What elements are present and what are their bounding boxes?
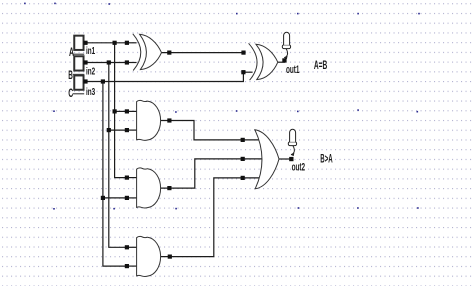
pin AND2 in1 bbox=[125, 176, 129, 180]
xor-gate U1 (XOR A,B) bbox=[133, 34, 162, 71]
wire OR3 input2 stub bbox=[243, 158, 263, 160]
wire net-A tap to AND1 input1 bbox=[115, 110, 128, 112]
major grid dark dots bbox=[24, 3, 420, 210]
wire XOR2 output to probe out1 bbox=[278, 61, 285, 63]
wire net-C tap to AND2 input2 bbox=[103, 197, 128, 199]
pin in3 output bbox=[83, 79, 87, 83]
or-gate U6 (3-input OR) bbox=[255, 130, 279, 189]
junction net-A at AND1 bbox=[113, 109, 117, 113]
pin in1 output bbox=[83, 41, 87, 45]
svg-text:A=B: A=B bbox=[314, 58, 328, 72]
pin XOR2 in2 bbox=[241, 70, 245, 74]
pin AND2 out bbox=[167, 186, 171, 190]
xor-gate U2 (XOR out to out1) bbox=[249, 43, 278, 80]
wire AND2 output to OR3 input2 bbox=[162, 159, 243, 188]
wire XOR1 output to XOR2 input1 bbox=[162, 52, 244, 54]
wire AND1 output to OR3 input1 bbox=[162, 121, 243, 140]
input port in1 (A) bbox=[73, 35, 85, 54]
junction net-C top bbox=[101, 79, 105, 83]
wire OR3 input1 stub bbox=[243, 139, 259, 141]
wire XOR2 input2 stub bbox=[243, 71, 252, 73]
and-gate U5 (AND3) bbox=[137, 237, 161, 277]
junction net-B at AND1 bbox=[107, 128, 111, 132]
wire AND input stubs bbox=[128, 110, 138, 112]
pin XOR2 in1 bbox=[241, 51, 245, 55]
junction net-C at AND2 bbox=[101, 196, 105, 200]
pin AND1 in1 bbox=[125, 109, 129, 113]
pin AND3 out bbox=[168, 255, 172, 259]
and-gate U4 (AND2) bbox=[137, 168, 161, 208]
wire OR3 output to probe out2 bbox=[279, 158, 291, 160]
pin OR3 in3 bbox=[241, 176, 245, 180]
wire net-B tap to AND1 input2 bbox=[109, 129, 128, 131]
probe out1 (LED indicator) bbox=[282, 32, 290, 62]
pin AND1 in2 bbox=[125, 128, 129, 132]
wire in2 to XOR1 input2 bbox=[86, 62, 129, 64]
wire in1 to XOR1 input1 bbox=[86, 42, 129, 44]
pin OR3 in2 bbox=[241, 157, 245, 161]
wire in3 to XOR2 input2 (long run, riser at x=243.4) bbox=[86, 72, 244, 81]
svg-text:out1: out1 bbox=[286, 64, 300, 76]
wire net-C vertical drop to AND3 input2 bbox=[103, 82, 128, 267]
pin AND3 in2 bbox=[125, 264, 129, 268]
junction net-B top bbox=[107, 60, 111, 64]
pin XOR1 in1 bbox=[125, 41, 129, 45]
svg-text:B: B bbox=[68, 68, 73, 82]
input port in3 (C) bbox=[73, 75, 85, 94]
probe out2 (LED indicator) bbox=[288, 129, 296, 161]
wire OR3 input3 stub bbox=[243, 177, 259, 179]
svg-text:in2: in2 bbox=[86, 67, 95, 78]
pin XOR1 out bbox=[167, 51, 171, 55]
input port in2 (B) bbox=[73, 56, 85, 75]
wire AND3 output to OR3 input3 bbox=[162, 178, 243, 257]
wire net-B vertical drop to AND3 input1 bbox=[109, 63, 128, 248]
junction net-A top bbox=[113, 41, 117, 45]
svg-text:B>A: B>A bbox=[320, 152, 333, 166]
svg-text:in3: in3 bbox=[86, 87, 95, 98]
pin AND3 in1 bbox=[125, 245, 129, 249]
svg-text:C: C bbox=[68, 86, 73, 100]
svg-text:out2: out2 bbox=[292, 162, 306, 174]
pin AND2 in2 bbox=[125, 196, 129, 200]
and-gate U3 (AND1) bbox=[137, 100, 161, 140]
pin in2 output bbox=[83, 60, 87, 64]
wire XOR1 input stubs bbox=[128, 42, 136, 44]
pin OR3 in1 bbox=[241, 138, 245, 142]
junction and pin squares bbox=[83, 41, 245, 269]
wire net-A vertical drop to AND2 input1 bbox=[115, 43, 128, 178]
svg-text:A: A bbox=[69, 45, 74, 59]
pin AND1 out bbox=[167, 118, 171, 122]
pin XOR1 in2 bbox=[125, 60, 129, 64]
svg-text:in1: in1 bbox=[86, 46, 95, 57]
